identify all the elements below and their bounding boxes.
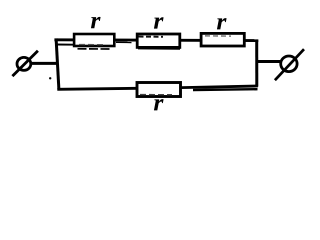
resistor R4 (bottom): [137, 83, 181, 97]
wire shadow dash between R1 and R2: [116, 41, 132, 43]
terminal T2 (right, circle with slash): [275, 49, 304, 80]
wire: top horizontal run: [54, 38, 258, 42]
doubled shadow line under bottom right segment: [193, 88, 258, 91]
wire shadow dash below top-left segment: [57, 44, 75, 46]
shadow dash below R1: [78, 48, 113, 50]
wire: right vertical to terminal T2: [257, 60, 280, 63]
value label r (R4): [154, 99, 164, 110]
resistor R3 (top right): [201, 33, 244, 46]
wire: bottom right segment: [181, 86, 258, 88]
value label r (R2): [154, 17, 164, 28]
terminal T1 (left, circle with slash): [12, 51, 38, 76]
scan marks inside R1 bottom: [79, 44, 106, 46]
wire: right vertical branch: [255, 39, 258, 86]
value label r (R1): [91, 17, 101, 28]
scan marks inside R4 bottom: [140, 94, 172, 96]
resistor R1 (top left): [74, 34, 114, 46]
stray ink dot near left vertical: [49, 77, 51, 79]
wire T1 to left vertical: [31, 62, 58, 65]
wire: left vertical branch: [56, 39, 59, 90]
value label r (R3): [217, 18, 227, 29]
wire: bottom left segment: [57, 88, 137, 89]
resistor R2 (top middle): [137, 34, 180, 47]
scan marks inside R3 top: [205, 35, 231, 37]
scan marks inside R2 top: [139, 36, 164, 38]
extra thick bottom edge of R2: [138, 47, 180, 50]
